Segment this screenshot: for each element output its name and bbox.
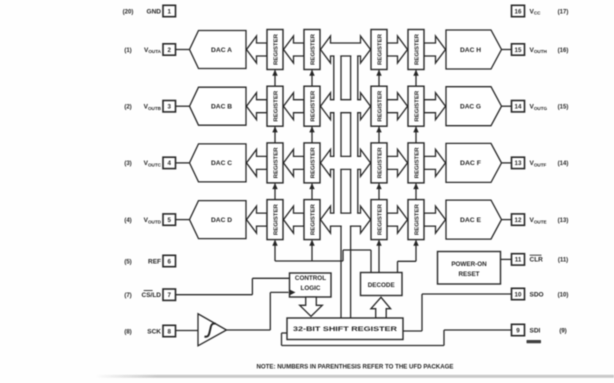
svg-text:DAC G: DAC G (460, 104, 481, 111)
svg-text:DAC F: DAC F (460, 160, 481, 167)
svg-text:(20): (20) (123, 9, 134, 15)
svg-text:13: 13 (515, 160, 522, 167)
svg-text:GND: GND (147, 8, 162, 15)
svg-text:(1): (1) (124, 48, 131, 54)
svg-text:4: 4 (167, 160, 171, 167)
svg-text:9: 9 (516, 327, 520, 334)
svg-text:REGISTER: REGISTER (310, 91, 316, 122)
svg-text:REGISTER: REGISTER (414, 147, 420, 178)
svg-text:NOTE: NUMBERS IN PARENTHESIS R: NOTE: NUMBERS IN PARENTHESIS REFER TO TH… (257, 364, 454, 370)
svg-text:14: 14 (515, 104, 522, 111)
svg-text:VOUTC: VOUTC (144, 160, 162, 167)
svg-text:POWER-ON: POWER-ON (451, 261, 487, 268)
svg-text:DAC E: DAC E (460, 217, 482, 224)
svg-text:REGISTER: REGISTER (310, 204, 316, 235)
svg-text:5: 5 (167, 217, 171, 224)
svg-text:(15): (15) (558, 105, 569, 111)
svg-text:DAC D: DAC D (211, 217, 232, 224)
svg-text:REGISTER: REGISTER (377, 34, 383, 65)
svg-text:(17): (17) (558, 9, 569, 15)
svg-text:32-BIT SHIFT REGISTER: 32-BIT SHIFT REGISTER (293, 326, 398, 333)
svg-text:(7): (7) (124, 293, 131, 299)
svg-text:(4): (4) (124, 218, 131, 224)
svg-text:CLR: CLR (530, 257, 544, 264)
svg-text:(13): (13) (558, 218, 569, 224)
svg-text:16: 16 (515, 8, 522, 15)
svg-text:REGISTER: REGISTER (377, 91, 383, 122)
svg-text:(3): (3) (124, 161, 131, 167)
svg-text:VOUTH: VOUTH (530, 47, 548, 54)
svg-text:VOUTE: VOUTE (530, 217, 547, 224)
svg-text:DAC A: DAC A (211, 47, 232, 54)
svg-text:REGISTER: REGISTER (273, 147, 279, 178)
svg-text:10: 10 (515, 291, 522, 298)
svg-text:VOUTF: VOUTF (530, 160, 547, 167)
svg-text:REGISTER: REGISTER (273, 34, 279, 65)
svg-text:VCC: VCC (530, 8, 542, 15)
svg-text:15: 15 (515, 47, 522, 54)
svg-text:6: 6 (167, 258, 171, 265)
svg-text:1: 1 (167, 8, 171, 15)
svg-text:REGISTER: REGISTER (377, 147, 383, 178)
svg-text:DAC B: DAC B (211, 104, 232, 111)
svg-text:SDI: SDI (530, 327, 541, 334)
svg-text:REGISTER: REGISTER (414, 91, 420, 122)
svg-text:7: 7 (167, 292, 171, 299)
svg-text:12: 12 (515, 217, 522, 224)
svg-text:DAC H: DAC H (460, 47, 481, 54)
svg-text:CONTROL: CONTROL (295, 275, 326, 282)
svg-text:(8): (8) (124, 329, 131, 335)
svg-text:SDO: SDO (530, 291, 544, 298)
svg-text:REGISTER: REGISTER (310, 147, 316, 178)
svg-text:VOUTA: VOUTA (144, 47, 162, 54)
svg-text:(9): (9) (559, 328, 566, 334)
svg-text:REGISTER: REGISTER (377, 204, 383, 235)
svg-text:11: 11 (515, 257, 522, 264)
svg-text:VOUTD: VOUTD (144, 217, 162, 224)
svg-text:(14): (14) (558, 161, 569, 167)
svg-text:(5): (5) (124, 259, 131, 265)
svg-text:LOGIC: LOGIC (301, 285, 321, 292)
svg-text:REGISTER: REGISTER (273, 204, 279, 235)
svg-text:3: 3 (167, 104, 171, 111)
svg-text:CS/LD: CS/LD (142, 292, 162, 299)
svg-text:REGISTER: REGISTER (273, 91, 279, 122)
svg-text:VOUTB: VOUTB (144, 104, 162, 111)
svg-text:REGISTER: REGISTER (414, 204, 420, 235)
svg-text:VOUTG: VOUTG (530, 104, 548, 111)
svg-text:DECODE: DECODE (368, 282, 395, 289)
svg-text:REF: REF (148, 258, 161, 265)
svg-text:(2): (2) (124, 105, 131, 111)
svg-text:SCK: SCK (147, 328, 161, 335)
svg-text:8: 8 (167, 328, 171, 335)
svg-text:(10): (10) (558, 292, 569, 298)
svg-text:RESET: RESET (459, 271, 480, 278)
svg-text:DAC C: DAC C (211, 160, 232, 167)
svg-text:REGISTER: REGISTER (310, 34, 316, 65)
svg-text:REGISTER: REGISTER (414, 34, 420, 65)
svg-text:2: 2 (167, 47, 171, 54)
svg-text:(11): (11) (558, 258, 568, 264)
svg-text:(16): (16) (558, 48, 569, 54)
